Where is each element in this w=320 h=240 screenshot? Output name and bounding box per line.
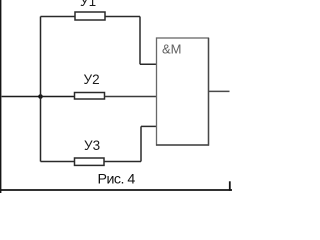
wire: node A to amplifier U2 (41, 96, 75, 98)
wire: U3 branch vertical rise (140, 126, 142, 161)
wire: U1 branch vertical drop (139, 17, 141, 65)
svg-text:Рис. 4: Рис. 4 (98, 172, 136, 188)
right table border stub (229, 181, 231, 191)
logic block U4 (156, 38, 209, 146)
amplifier U1 (box) (75, 12, 105, 20)
bottom table border (0, 189, 232, 191)
node A junction dot (38, 94, 43, 99)
svg-text:У3: У3 (84, 138, 100, 153)
svg-text:У2: У2 (84, 72, 100, 87)
wire: output of logic block (209, 90, 230, 92)
amplifier U3 (box) (75, 158, 105, 165)
wire: U2 output into logic block pin 2 (105, 96, 157, 98)
svg-text:&М: &М (162, 42, 182, 57)
wire: U1 branch into logic block pin 1 (140, 63, 157, 65)
wire: node bus to amplifier U3 (41, 161, 75, 163)
wire: U3 output to corner (104, 161, 141, 163)
wire: main input line from left edge to node A (2, 96, 41, 98)
wire: U3 branch into logic block pin 3 (141, 125, 157, 127)
svg-text:У1: У1 (80, 0, 96, 9)
amplifier U2 (box) (75, 93, 105, 100)
wire: U1 output to corner (105, 16, 140, 18)
wire: node A to amplifier U1 (41, 16, 75, 18)
wire: vertical bus from U1 branch to U3 branch (40, 17, 42, 162)
left table border (0, 0, 2, 193)
